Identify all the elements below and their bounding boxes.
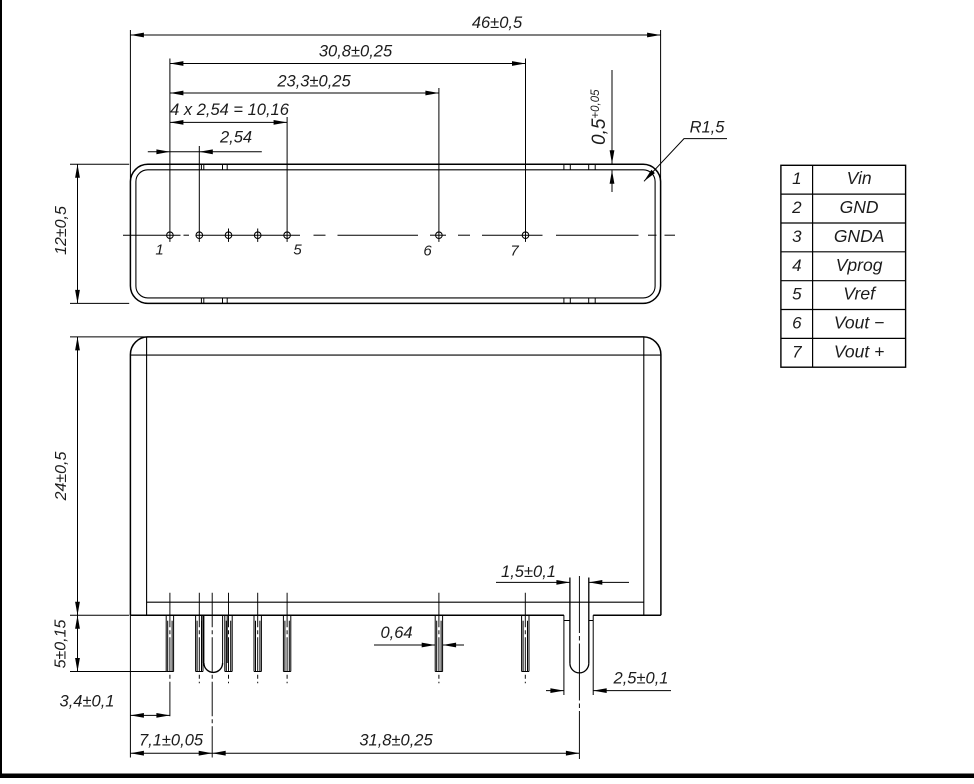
top view: mounting tab slot marks on bottom edge — [201, 298, 595, 304]
front view: case bottom edge left segment — [130, 614, 564, 616]
front view: right seam line — [643, 337, 645, 615]
front view: bottom flange seam line — [147, 601, 644, 603]
svg-text:6: 6 — [792, 313, 802, 332]
svg-text:Vout +: Vout + — [834, 341, 884, 361]
pin 3 lead (front view) — [225, 615, 232, 671]
dimension 5±0,15 pin length — [70, 615, 166, 671]
svg-text:GNDA: GNDA — [834, 226, 885, 246]
pin 3 hole (top view) — [225, 229, 232, 242]
pin 2 centerline (front view) — [198, 593, 200, 683]
pin 3 centerline (front view) — [228, 593, 230, 683]
frame: bottom border bar of drawing sheet — [0, 774, 974, 779]
svg-text:0,5+0,05: 0,5+0,05 — [589, 89, 610, 145]
dimension 46±0,5 overall width — [130, 30, 660, 182]
svg-text:5: 5 — [293, 242, 302, 259]
dimension 3,4±0,1 case edge to pin1 — [130, 615, 170, 757]
pin 2 lead (front view) — [196, 615, 203, 671]
front view: top seam line — [130, 354, 661, 356]
dimension 7,1±0,05 case edge to tab centerline — [130, 751, 212, 756]
svg-text:Vref: Vref — [843, 284, 877, 304]
svg-text:1: 1 — [155, 242, 163, 259]
pin 1 hole (top view) — [167, 229, 174, 242]
top view: horizontal centerline (chain line) — [123, 234, 675, 236]
dimension 12±0,5 case height (top view) — [70, 164, 129, 303]
svg-text:24±0,5: 24±0,5 — [53, 451, 70, 501]
pin 2 hole (top view) — [196, 229, 203, 242]
pin 4 hole (top view) — [254, 229, 261, 242]
svg-text:1: 1 — [792, 169, 801, 188]
mounting lug (front view) — [570, 578, 589, 673]
dimension 2,5±0,1 slot width — [546, 688, 671, 693]
svg-text:4 x 2,54 = 10,16: 4 x 2,54 = 10,16 — [170, 101, 290, 119]
pin 5 centerline (front view) — [286, 593, 288, 683]
dimension 23,3±0,25 pin1 to pin6 — [170, 88, 439, 229]
svg-text:7: 7 — [792, 342, 802, 361]
top view: mounting tab slot marks on top edge — [201, 164, 595, 170]
front view: lug slot right wall — [592, 615, 594, 695]
pin 7 centerline (front view) — [524, 593, 526, 683]
svg-text:23,3±0,25: 23,3±0,25 — [276, 73, 351, 91]
dimension 2,54 pin1 to pin2 — [148, 146, 262, 229]
dimension 1,5±0,1 lug width — [496, 580, 629, 585]
pin 1 centerline (front view) — [169, 593, 171, 719]
pin 6 centerline (front view) — [438, 593, 440, 683]
dimension 24±0,5 case height (front view) — [70, 337, 148, 615]
pin 6 lead (front view) — [435, 615, 442, 671]
dimension 31,8±0,25 tab centerline to lug centerline — [212, 751, 579, 756]
svg-text:3: 3 — [792, 227, 802, 246]
svg-text:1,5±0,1: 1,5±0,1 — [501, 563, 556, 581]
svg-text:7,1±0,05: 7,1±0,05 — [139, 732, 204, 750]
front view: left seam line — [146, 337, 148, 615]
frame: left border line of drawing sheet — [0, 0, 2, 778]
pin 4 centerline (front view) — [257, 593, 259, 683]
svg-text:Vprog: Vprog — [836, 255, 883, 275]
svg-text:5±0,15: 5±0,15 — [53, 619, 70, 668]
front view: lug slot bottom edges — [564, 620, 593, 622]
dimension R1,5 corner radius leader — [644, 139, 727, 182]
mounting lug centerline — [578, 576, 580, 759]
svg-text:46±0,5: 46±0,5 — [472, 14, 523, 32]
front view: lug slot left wall — [563, 615, 565, 695]
pin 5 lead (front view) — [283, 615, 290, 671]
svg-text:R1,5: R1,5 — [690, 119, 726, 137]
pin 7 hole (top view) — [522, 229, 529, 242]
mounting tab centerline — [211, 593, 213, 758]
svg-text:2: 2 — [791, 198, 802, 217]
pin 4 lead (front view) — [254, 615, 261, 671]
pin 1 lead (front view) — [166, 615, 173, 671]
front view: case bottom edge right segment — [593, 614, 661, 616]
front view: case outline with rounded top corners — [130, 337, 661, 615]
svg-text:0,64: 0,64 — [380, 624, 412, 642]
pin function table — [781, 165, 906, 367]
svg-text:30,8±0,25: 30,8±0,25 — [319, 43, 393, 61]
svg-text:4: 4 — [792, 256, 801, 275]
svg-text:2,5±0,1: 2,5±0,1 — [613, 670, 669, 688]
svg-text:2,54: 2,54 — [219, 129, 252, 147]
pin 7 lead (front view) — [522, 615, 529, 671]
mounting tab legs (front view) — [202, 615, 228, 672]
svg-text:Vin: Vin — [847, 168, 872, 188]
dimension 0,5 +0,05 wall thickness — [610, 70, 615, 192]
svg-text:6: 6 — [423, 243, 432, 260]
svg-text:GND: GND — [840, 197, 879, 217]
svg-text:3,4±0,1: 3,4±0,1 — [60, 693, 115, 711]
dimension 4 x 2,54 = 10,16 pin pitch group — [170, 117, 287, 229]
dimension 0,64 pin width — [374, 643, 464, 648]
svg-text:Vout −: Vout − — [834, 312, 884, 332]
dimension 30,8±0,25 pin1 to pin7 — [170, 59, 526, 229]
svg-text:7: 7 — [510, 243, 519, 260]
svg-text:31,8±0,25: 31,8±0,25 — [359, 732, 433, 750]
top view: module case outer outline — [130, 164, 660, 303]
top view: module case inner outline — [136, 170, 655, 298]
svg-text:12±0,5: 12±0,5 — [53, 206, 70, 255]
svg-text:5: 5 — [792, 285, 802, 304]
pin 6 hole (top view) — [436, 229, 443, 242]
pin 5 hole (top view) — [284, 229, 291, 242]
